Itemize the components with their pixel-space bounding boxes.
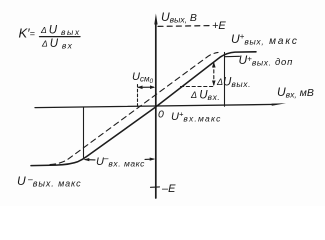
- svg-text:Δ Uвх.: Δ Uвх.: [190, 90, 220, 103]
- svg-text:K′=: K′=: [19, 26, 35, 41]
- svg-text:U–вх. макс: U–вх. макс: [96, 154, 145, 169]
- svg-text:Uсм0: Uсм0: [132, 71, 153, 85]
- svg-text:Uвых, В: Uвых, В: [161, 10, 197, 25]
- svg-text:–E: –E: [161, 183, 176, 195]
- svg-text:0: 0: [158, 109, 164, 121]
- svg-text:Uвх, мВ: Uвх, мВ: [277, 85, 314, 100]
- svg-text:U+вых. доп: U+вых. доп: [239, 53, 294, 68]
- svg-text:U+вых, макс: U+вых, макс: [231, 32, 299, 47]
- svg-text:U+вх.макс: U+вх.макс: [171, 110, 222, 124]
- svg-text:+E: +E: [212, 20, 226, 32]
- svg-text:Δ U вых: Δ U вых: [40, 25, 81, 38]
- svg-text:ΔUвых.: ΔUвых.: [216, 77, 251, 90]
- svg-text:Δ U вх: Δ U вх: [41, 38, 73, 51]
- svg-text:U –вых. макс: U –вых. макс: [17, 174, 82, 189]
